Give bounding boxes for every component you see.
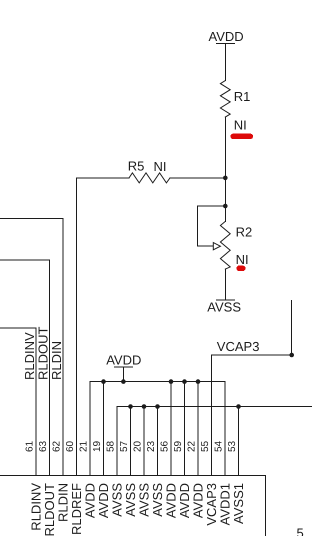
svg-text:21: 21: [79, 440, 90, 452]
potentiometer R2: [220, 206, 252, 300]
wire pin 20 AVSS: [143, 407, 145, 476]
power symbol AVDD top: [209, 29, 244, 44]
VCAP3 wire: [212, 300, 292, 475]
svg-text:R5: R5: [128, 159, 145, 174]
node B junction: [223, 204, 228, 209]
resistor R5: [128, 159, 170, 183]
svg-text:63: 63: [38, 440, 49, 452]
wire AVDD to R1: [224, 44, 226, 81]
svg-text:VCAP3: VCAP3: [217, 339, 260, 354]
junction pin 19: [101, 379, 106, 384]
svg-text:NI: NI: [234, 118, 247, 133]
wire pin 57 AVSS: [130, 407, 132, 476]
svg-text:57: 57: [119, 440, 130, 452]
svg-text:19: 19: [92, 440, 103, 452]
red strike mark for R1 NI: [233, 134, 250, 140]
svg-text:59: 59: [173, 440, 184, 452]
svg-text:AVSS: AVSS: [207, 299, 241, 314]
R2 wiper arm wire: [198, 206, 226, 246]
svg-text:RLDOUT: RLDOUT: [36, 326, 51, 380]
svg-text:22: 22: [187, 440, 198, 452]
wire R5 to node A: [170, 177, 225, 179]
svg-text:R1: R1: [234, 89, 251, 104]
red strike mark for R2 NI: [239, 266, 243, 271]
wire RLDOUT from left edge: [0, 260, 50, 475]
junction pin 57: [128, 404, 133, 409]
svg-text:RLDIN: RLDIN: [49, 341, 64, 380]
wire RLDREF to R5: [77, 178, 130, 476]
svg-text:AVDD: AVDD: [106, 353, 141, 368]
wire RLDIN from left edge: [0, 219, 63, 476]
svg-text:AVDD: AVDD: [209, 29, 244, 44]
AVDD rail wire: [90, 382, 225, 476]
svg-text:53: 53: [227, 440, 238, 452]
svg-text:55: 55: [200, 440, 211, 452]
IC box edge: [0, 475, 266, 536]
wire pin 53 AVSS1: [238, 407, 240, 476]
wire pin 19 AVDD: [103, 382, 105, 476]
R2 wiper arrow: [213, 243, 220, 250]
junction pin 20: [142, 404, 147, 409]
node A junction: [223, 176, 228, 181]
svg-text:NI: NI: [154, 159, 167, 174]
power symbol AVSS bottom of R2: [207, 299, 241, 314]
junction VCAP3 corner: [289, 353, 294, 358]
svg-text:5: 5: [297, 526, 304, 536]
svg-text:58: 58: [106, 440, 117, 452]
resistor R1: [220, 81, 250, 118]
svg-text:20: 20: [133, 440, 144, 452]
junction pin 56: [169, 379, 174, 384]
junction AVDD symbol stub: [121, 379, 126, 384]
svg-text:54: 54: [214, 440, 225, 452]
svg-text:NI: NI: [236, 252, 249, 267]
junction pin 22: [196, 379, 201, 384]
junction pin 23: [155, 404, 160, 409]
wire pin 56 AVDD: [170, 382, 172, 476]
svg-text:61: 61: [25, 440, 36, 452]
junction pin 53: [236, 404, 241, 409]
power symbol AVDD mid: [106, 353, 141, 382]
svg-text:RLDINV: RLDINV: [22, 332, 37, 380]
svg-text:56: 56: [160, 440, 171, 452]
wire pin 22 AVDD: [197, 382, 199, 476]
wire R1 to node A: [224, 117, 226, 178]
wire RLDINV from left edge: [0, 328, 36, 475]
wire node A to node B: [224, 178, 226, 206]
svg-text:62: 62: [52, 440, 63, 452]
wire pin 59 AVDD: [184, 382, 186, 476]
svg-text:R2: R2: [236, 225, 253, 240]
svg-text:60: 60: [65, 440, 76, 452]
junction pin 59: [182, 379, 187, 384]
AVSS rail wire: [117, 407, 312, 476]
wire pin 23 AVSS: [157, 407, 159, 476]
svg-text:AVSS1: AVSS1: [231, 483, 246, 524]
svg-text:23: 23: [146, 440, 157, 452]
